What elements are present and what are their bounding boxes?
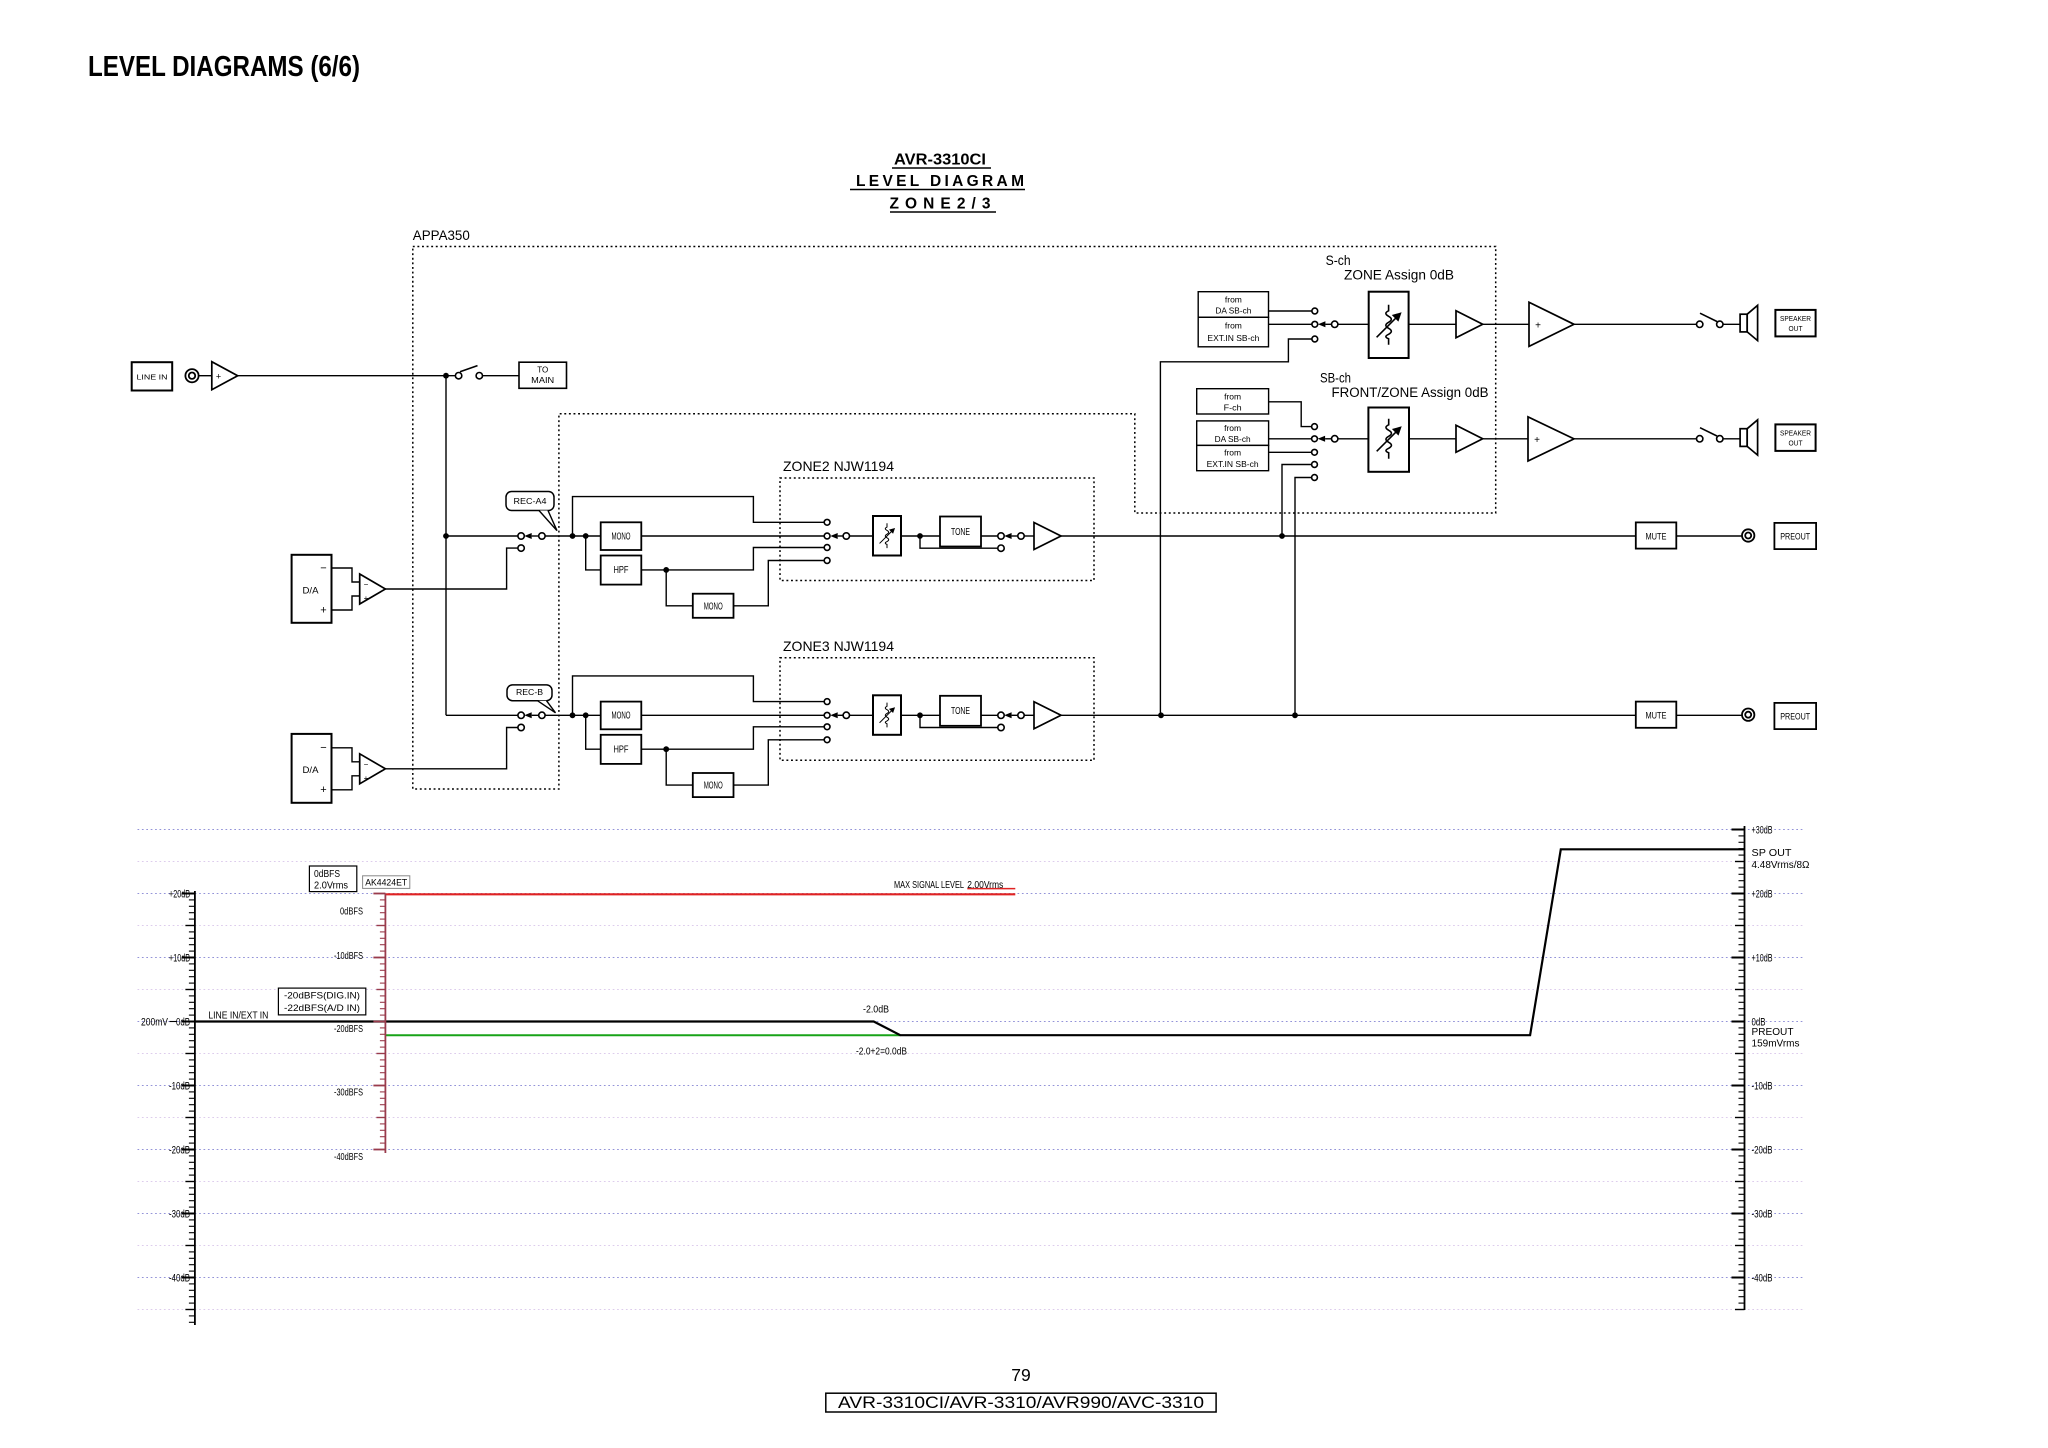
- contact B4: [1312, 462, 1318, 468]
- svg-text:PREOUT: PREOUT: [1752, 1026, 1795, 1038]
- diagram title LEVEL DIAGRAM: [850, 173, 1025, 190]
- wire ZONE3 bypass loop: [573, 676, 825, 715]
- svg-text:-20dBFS(DIG.IN): -20dBFS(DIG.IN): [284, 991, 360, 1002]
- svg-text:PREOUT: PREOUT: [1780, 532, 1810, 542]
- wire VR1 to TONE 1: [901, 535, 940, 537]
- jack LINE IN: [185, 369, 198, 382]
- node HPF 2 out: [663, 746, 669, 752]
- wire ZONE2 output: [1061, 535, 1636, 537]
- svg-text:LEVEL DIAGRAMS (6/6): LEVEL DIAGRAMS (6/6): [88, 51, 360, 83]
- wire VR2 to TONE 2: [901, 714, 940, 716]
- wire to amp A5: [1024, 714, 1034, 716]
- block D/A 1: [292, 555, 332, 623]
- wire EXT.IN to contact B3: [1269, 451, 1312, 453]
- svg-text:-20dBFS: -20dBFS: [334, 1024, 363, 1035]
- node ZONE2 tap 1: [570, 533, 576, 539]
- box AK4424ET: [363, 876, 410, 889]
- svg-text:S-ch: S-ch: [1326, 253, 1351, 268]
- switch S-ch select: [1312, 321, 1338, 327]
- dBFS scale labels: [334, 907, 363, 1164]
- svg-text:OUT: OUT: [1789, 439, 1803, 448]
- svg-text:HPF: HPF: [614, 565, 629, 576]
- contact from D/A 1: [518, 545, 524, 551]
- chart gridlines: [138, 830, 1804, 1310]
- contact ZONE2 in 2: [824, 533, 830, 539]
- svg-text:-40dB: -40dB: [169, 1272, 190, 1284]
- svg-text:MONO: MONO: [612, 531, 631, 542]
- wire contact S3 to ZONE3: [1160, 339, 1312, 715]
- svg-text:-10dB: -10dB: [169, 1080, 190, 1092]
- wire ZONE3 output: [1061, 714, 1636, 716]
- dashed box ZONE2 NJW1194: [780, 478, 1094, 581]
- box -20dBFS DIG IN: [278, 988, 365, 1015]
- node tone tap 1: [917, 533, 923, 539]
- svg-text:-40dBFS: -40dBFS: [334, 1152, 363, 1163]
- svg-text:SP OUT: SP OUT: [1752, 847, 1793, 859]
- wire VR3 to amp A6: [1409, 323, 1456, 325]
- contact ZONE3 in 3: [824, 724, 830, 730]
- switch tone select 1: [998, 533, 1024, 539]
- svg-text:+: +: [320, 605, 326, 617]
- power amp PA2: [1528, 417, 1574, 461]
- svg-text:PREOUT: PREOUT: [1780, 712, 1810, 722]
- svg-text:+: +: [364, 774, 369, 783]
- svg-text:ZONE3 NJW1194: ZONE3 NJW1194: [783, 638, 894, 654]
- svg-text:LEVEL DIAGRAM: LEVEL DIAGRAM: [856, 173, 1024, 190]
- wire SW1 to TO MAIN: [483, 375, 520, 377]
- block MONO 4: [693, 773, 734, 797]
- svg-text:+: +: [320, 784, 326, 796]
- svg-text:MONO: MONO: [612, 711, 631, 722]
- switch REC-A4 select: [518, 533, 545, 539]
- diagram title AVR-3310CI: [892, 152, 991, 169]
- wire A1 to switch SW1: [238, 375, 456, 377]
- wire contact B5 to ZONE3: [1295, 478, 1312, 716]
- svg-text:ZONE2 NJW1194: ZONE2 NJW1194: [783, 458, 894, 474]
- block SPEAKER OUT SB: [1775, 424, 1815, 451]
- svg-text:MUTE: MUTE: [1646, 531, 1667, 542]
- wire to amp A3: [1024, 535, 1034, 537]
- dashed box APPA350: [413, 247, 1496, 790]
- block D/A 2: [292, 734, 332, 803]
- svg-text:-30dB: -30dB: [1752, 1208, 1773, 1220]
- contact ZONE3 in 4: [824, 737, 830, 743]
- node tone tap 2: [917, 712, 923, 718]
- svg-text:-30dBFS: -30dBFS: [334, 1088, 363, 1099]
- red underline of 2.00Vrms: [967, 888, 1015, 890]
- wire HPF 1 out: [641, 569, 666, 571]
- block SPEAKER OUT S: [1775, 310, 1815, 337]
- switch REC-B select: [518, 712, 545, 718]
- switch speaker SB: [1697, 428, 1724, 442]
- amp A7: [1456, 425, 1483, 452]
- node ZONE2 tap 2: [583, 533, 589, 539]
- wire HPF 1 to MONO 2: [666, 570, 693, 606]
- switch SB-ch select: [1312, 436, 1338, 442]
- block LINE IN: [132, 362, 173, 390]
- svg-text:from: from: [1224, 423, 1241, 433]
- left axis labels: [141, 888, 190, 1284]
- svg-text:MAX SIGNAL LEVEL: MAX SIGNAL LEVEL: [894, 879, 964, 891]
- block TONE 1: [940, 517, 981, 547]
- svg-text:LINE IN: LINE IN: [137, 372, 168, 381]
- svg-text:-10dB: -10dB: [1752, 1080, 1773, 1092]
- volume VR2: [873, 695, 901, 735]
- label MAX SIGNAL LEVEL: [894, 879, 1003, 891]
- node ZONE3 tap 2: [583, 712, 589, 718]
- wire A7 to power amp PA2: [1483, 438, 1528, 440]
- svg-text:0dB: 0dB: [176, 1016, 190, 1028]
- contact tone bypass 1: [998, 545, 1004, 551]
- block MONO 1: [601, 522, 642, 550]
- contact ZONE2 in 1: [824, 519, 830, 525]
- wire HPF 2 out: [641, 748, 666, 750]
- svg-text:AK4424ET: AK4424ET: [365, 877, 407, 888]
- amp A1: [212, 362, 238, 390]
- wire F-ch to contact B1: [1269, 402, 1312, 427]
- block from F-ch: [1197, 389, 1269, 414]
- contact S3: [1312, 336, 1318, 342]
- svg-text:+: +: [364, 594, 369, 603]
- wire to speaker SB: [1723, 438, 1740, 440]
- wire switch to MONO 1: [545, 535, 601, 537]
- wire D/A 1 plus to amp A2: [332, 596, 360, 610]
- svg-text:DA SB-ch: DA SB-ch: [1215, 306, 1251, 316]
- svg-text:REC-A4: REC-A4: [514, 497, 548, 506]
- block from EXT.IN SB-ch S: [1198, 317, 1268, 347]
- wire bus to ZONE2 switch: [446, 535, 518, 537]
- node HPF 1 out: [663, 567, 669, 573]
- svg-text:+10dB: +10dB: [1752, 952, 1773, 964]
- wire tap to HPF 2: [586, 715, 601, 749]
- speaker icon SB: [1740, 420, 1758, 455]
- wire to volume VR3: [1338, 323, 1369, 325]
- power amp PA1: [1529, 302, 1574, 346]
- dBFS scale ticks: [373, 894, 385, 1150]
- svg-text:2.0Vrms: 2.0Vrms: [314, 881, 348, 892]
- contact B3: [1312, 449, 1318, 455]
- svg-text:EXT.IN SB-ch: EXT.IN SB-ch: [1207, 459, 1259, 469]
- svg-text:+20dB: +20dB: [1752, 888, 1773, 900]
- wire DA SB-ch to contact S1: [1269, 310, 1312, 312]
- contact from D/A 2: [518, 724, 524, 730]
- svg-text:DA SB-ch: DA SB-ch: [1215, 434, 1251, 444]
- amp A2: [360, 574, 386, 604]
- svg-text:APPA350: APPA350: [413, 227, 470, 243]
- wire contact B4 to ZONE2: [1282, 465, 1312, 537]
- diagram title ZONE2/3: [890, 196, 997, 213]
- black signal level trace: [195, 849, 1745, 1035]
- amp A4: [360, 754, 386, 784]
- switch speaker S: [1697, 313, 1724, 327]
- wire PA2 to speaker switch: [1574, 438, 1697, 440]
- contact ZONE2 in 4: [824, 558, 830, 564]
- svg-text:AVR-3310CI/AVR-3310/AVR990/AVC: AVR-3310CI/AVR-3310/AVR990/AVC-3310: [838, 1394, 1204, 1412]
- wire D/A 2 minus to amp A4: [332, 748, 360, 762]
- box 0dBFS 2.0Vrms: [309, 866, 356, 892]
- wire to volume VR2: [850, 714, 874, 716]
- wire bus to ZONE3 switch: [446, 714, 518, 716]
- svg-text:-30dB: -30dB: [169, 1208, 190, 1220]
- svg-text:0dBFS: 0dBFS: [314, 869, 340, 880]
- wire MONO 1 to contact: [641, 535, 824, 537]
- svg-text:from: from: [1225, 321, 1242, 331]
- amp A3: [1034, 523, 1061, 550]
- wire D/A 2 plus to amp A4: [332, 776, 360, 790]
- wire to volume VR4: [1338, 438, 1369, 440]
- svg-text:from: from: [1225, 294, 1242, 304]
- wire tone bypass 1: [920, 536, 998, 548]
- svg-text:-40dB: -40dB: [1752, 1272, 1773, 1284]
- node ZONE3 tap 1: [570, 712, 576, 718]
- switch ZONE3 input select: [830, 712, 849, 718]
- block from DA SB-ch S: [1198, 292, 1268, 318]
- wire to speaker S: [1723, 323, 1740, 325]
- svg-text:79: 79: [1011, 1365, 1030, 1385]
- switch SW1: [455, 366, 482, 379]
- svg-text:LINE IN/EXT IN: LINE IN/EXT IN: [208, 1010, 268, 1022]
- wire MUTE 2 to jack: [1676, 714, 1742, 716]
- contact S1: [1312, 308, 1318, 314]
- svg-text:ZONE Assign 0dB: ZONE Assign 0dB: [1344, 268, 1454, 283]
- block HPF 2: [601, 735, 642, 764]
- wire jack to amp A1: [199, 375, 212, 377]
- callout REC-A4: [506, 492, 557, 531]
- svg-text:D/A: D/A: [303, 765, 319, 775]
- right axis labels: [1752, 824, 1773, 1284]
- wire PA1 to speaker switch: [1574, 323, 1697, 325]
- contact ZONE3 in 2: [824, 712, 830, 718]
- dashed box ZONE3 NJW1194: [780, 658, 1094, 761]
- jack PREOUT 2: [1742, 709, 1754, 721]
- switch ZONE2 input select: [830, 533, 849, 539]
- block TO MAIN: [519, 362, 567, 388]
- switch tone select 2: [998, 712, 1024, 718]
- svg-text:F-ch: F-ch: [1224, 403, 1242, 413]
- wire EXT.IN to contact S2: [1269, 323, 1312, 325]
- svg-text:SPEAKER: SPEAKER: [1780, 428, 1812, 437]
- svg-text:-2.0+2=0.0dB: -2.0+2=0.0dB: [856, 1046, 907, 1057]
- svg-text:+30dB: +30dB: [1752, 824, 1773, 836]
- svg-text:+: +: [1535, 321, 1541, 332]
- svg-text:2.00Vrms: 2.00Vrms: [967, 879, 1003, 891]
- wire tap to HPF 1: [586, 536, 601, 570]
- block MUTE 2: [1636, 702, 1677, 728]
- wire HPF 2 to MONO 4: [666, 749, 693, 785]
- svg-text:D/A: D/A: [303, 586, 319, 596]
- block MONO 2: [693, 594, 734, 618]
- contact ZONE2 in 3: [824, 545, 830, 551]
- svg-text:-10dBFS: -10dBFS: [334, 951, 363, 962]
- wire ZONE2 bypass loop: [573, 497, 825, 536]
- wire MONO 4 to contact 4: [734, 740, 825, 785]
- svg-text:FRONT/ZONE Assign 0dB: FRONT/ZONE Assign 0dB: [1332, 385, 1489, 400]
- svg-text:−: −: [320, 742, 326, 754]
- svg-text:-2.0dB: -2.0dB: [863, 1005, 889, 1016]
- block HPF 1: [601, 556, 642, 585]
- wire MONO 3 to contact: [641, 714, 824, 716]
- left axis line: [194, 891, 196, 1325]
- block from DA SB-ch B: [1197, 421, 1269, 446]
- wire TONE 2 out: [981, 714, 998, 716]
- wire main vertical bus: [445, 376, 447, 716]
- right axis ticks: [1732, 830, 1745, 1310]
- block from EXT.IN SB-ch B: [1197, 445, 1269, 470]
- block PREOUT 1: [1774, 523, 1816, 549]
- wire A6 to power amp PA1: [1483, 323, 1529, 325]
- svg-text:REC-B: REC-B: [516, 688, 543, 697]
- svg-text:TO: TO: [537, 365, 548, 375]
- svg-text:+: +: [216, 371, 221, 381]
- wire D/A 2 to contact: [385, 728, 518, 769]
- callout REC-B: [507, 685, 556, 713]
- wire HPF 1 to contact 3: [666, 548, 824, 570]
- wire tone bypass 2: [920, 715, 998, 727]
- svg-text:MONO: MONO: [704, 781, 723, 792]
- svg-text:159mVrms: 159mVrms: [1752, 1038, 1800, 1050]
- svg-text:-22dBFS(A/D IN): -22dBFS(A/D IN): [284, 1003, 360, 1014]
- svg-text:-20dB: -20dB: [169, 1144, 190, 1156]
- svg-text:from: from: [1224, 391, 1241, 401]
- svg-text:+10dB: +10dB: [169, 952, 190, 964]
- red max signal level line: [385, 893, 1015, 895]
- block MUTE 1: [1636, 522, 1677, 548]
- svg-text:200mV: 200mV: [141, 1016, 169, 1028]
- wire MONO 2 to contact 4: [734, 561, 825, 606]
- block PREOUT 2: [1774, 703, 1816, 729]
- amp A6: [1456, 311, 1483, 338]
- svg-text:from: from: [1224, 447, 1241, 457]
- svg-text:EXT.IN SB-ch: EXT.IN SB-ch: [1207, 333, 1259, 343]
- svg-text:OUT: OUT: [1789, 324, 1803, 333]
- block TONE 2: [940, 696, 981, 726]
- wire D/A 1 to contact: [385, 548, 518, 589]
- contact B5: [1312, 475, 1318, 481]
- block MONO 3: [601, 702, 642, 730]
- contact B1: [1312, 424, 1318, 430]
- node bus ZONE2: [443, 533, 449, 539]
- right axis line: [1744, 826, 1746, 1310]
- svg-text:TONE: TONE: [951, 706, 970, 717]
- volume VR4 FRONT/ZONE Assign: [1368, 408, 1409, 472]
- svg-text:4.48Vrms/8Ω: 4.48Vrms/8Ω: [1752, 859, 1810, 871]
- svg-text:TONE: TONE: [951, 527, 970, 538]
- volume VR3 ZONE Assign: [1369, 292, 1409, 358]
- svg-text:HPF: HPF: [614, 745, 629, 756]
- wire D/A 1 minus to amp A2: [332, 568, 360, 582]
- footer model box: [826, 1393, 1216, 1412]
- svg-text:−: −: [364, 580, 369, 589]
- dBFS scale line: [384, 894, 386, 1154]
- wire MUTE 1 to jack: [1676, 535, 1742, 537]
- wire to volume VR1: [850, 535, 874, 537]
- amp A5: [1034, 702, 1061, 729]
- node ZONE2 to SB-ch: [1279, 533, 1285, 539]
- wire DA SB-ch to contact B2: [1269, 438, 1312, 440]
- svg-text:-20dB: -20dB: [1752, 1144, 1773, 1156]
- svg-text:AVR-3310CI: AVR-3310CI: [894, 152, 986, 169]
- svg-text:ZONE2/3: ZONE2/3: [890, 196, 991, 213]
- svg-text:−: −: [320, 563, 326, 575]
- svg-text:MONO: MONO: [704, 601, 723, 612]
- wire TONE 1 out: [981, 535, 998, 537]
- left axis ticks: [182, 894, 195, 1323]
- green zone level line: [385, 1034, 900, 1036]
- svg-text:−: −: [364, 760, 369, 769]
- wire switch to MONO 3: [545, 714, 601, 716]
- contact ZONE3 in 1: [824, 699, 830, 705]
- jack PREOUT 1: [1742, 529, 1754, 541]
- wire HPF 2 to contact 3: [666, 727, 824, 749]
- wire VR4 to amp A7: [1409, 438, 1456, 440]
- speaker icon S: [1740, 305, 1758, 340]
- svg-text:SB-ch: SB-ch: [1320, 371, 1351, 386]
- svg-text:+: +: [1534, 435, 1540, 446]
- node main input junction: [443, 373, 449, 379]
- volume VR1: [873, 516, 901, 556]
- svg-text:+20dB: +20dB: [169, 888, 190, 900]
- svg-text:MAIN: MAIN: [531, 375, 554, 385]
- svg-text:MUTE: MUTE: [1646, 711, 1667, 722]
- contact tone bypass 2: [998, 724, 1004, 730]
- svg-text:0dBFS: 0dBFS: [340, 907, 363, 918]
- svg-text:SPEAKER: SPEAKER: [1780, 314, 1812, 323]
- node ZONE3 to S-ch: [1158, 712, 1164, 718]
- node ZONE3 to SB-ch: [1292, 712, 1298, 718]
